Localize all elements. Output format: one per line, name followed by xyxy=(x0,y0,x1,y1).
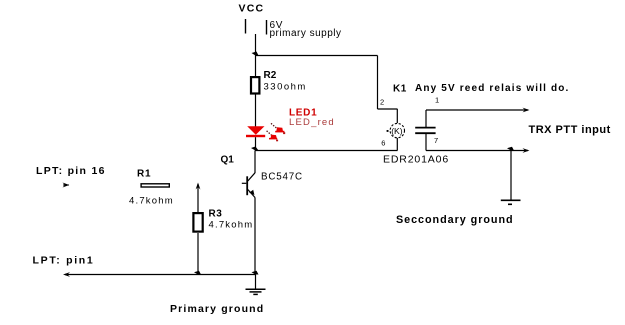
resistor R3 xyxy=(193,209,253,232)
wire LED to node xyxy=(255,137,257,150)
power VCC symbol xyxy=(239,3,265,34)
svg-text:R2: R2 xyxy=(264,70,277,81)
wire down to secondary ground xyxy=(510,151,512,201)
wire contact top stub xyxy=(425,110,427,127)
node junction VCC rail xyxy=(252,52,259,56)
svg-text:Any 5V reed relais will do.: Any 5V reed relais will do. xyxy=(415,83,569,94)
svg-text:Q1: Q1 xyxy=(221,155,235,166)
label K1 xyxy=(393,84,407,95)
LED LED1 xyxy=(246,108,335,142)
terminal arrow R3 top xyxy=(196,183,201,190)
svg-text:Primary ground: Primary ground xyxy=(170,303,264,315)
wire R3 bottom xyxy=(197,233,199,275)
svg-text:R3: R3 xyxy=(209,209,223,220)
svg-text:6: 6 xyxy=(381,139,385,148)
svg-text:2: 2 xyxy=(380,98,384,107)
wire node to collector xyxy=(254,151,256,174)
wire bottom rail xyxy=(65,274,256,276)
svg-text:4.7kohm: 4.7kohm xyxy=(129,195,174,206)
relay contact plates xyxy=(415,128,435,134)
resistor R2 xyxy=(251,70,307,94)
svg-text:LPT: pin1: LPT: pin1 xyxy=(33,254,95,266)
svg-text:R1: R1 xyxy=(137,169,151,180)
wire stub into relay coil xyxy=(396,109,398,123)
wire top rail to relay branch xyxy=(255,55,378,57)
svg-text:LED_red: LED_red xyxy=(289,117,335,128)
label LPT: pin1 xyxy=(33,254,95,266)
transistor Q1 xyxy=(221,155,303,198)
svg-text:TRX PTT input: TRX PTT input xyxy=(529,124,611,136)
svg-text:Seccondary ground: Seccondary ground xyxy=(396,214,514,226)
label TRX PTT input xyxy=(529,124,611,136)
svg-text:(K): (K) xyxy=(391,126,403,136)
wire contact bottom stub xyxy=(425,134,427,151)
wire coil return to LED node xyxy=(256,150,398,152)
label relay comment xyxy=(415,83,569,94)
wire R2 to LED xyxy=(255,95,257,127)
relay contact pin 7 label xyxy=(434,136,438,145)
terminal arrow TRX bottom xyxy=(523,148,530,153)
wire relay coil bottom xyxy=(396,138,398,151)
svg-text:BC547C: BC547C xyxy=(261,171,303,182)
node junction emitter/ground xyxy=(252,271,259,275)
pin 6 label xyxy=(381,139,385,148)
wire R3 top xyxy=(197,184,199,212)
svg-text:330ohm: 330ohm xyxy=(264,82,307,93)
label 6V primary supply (with leader bar) xyxy=(267,20,342,39)
svg-text:EDR201A06: EDR201A06 xyxy=(383,153,449,165)
svg-text:primary supply: primary supply xyxy=(270,28,342,39)
svg-text:1: 1 xyxy=(435,96,439,105)
pin 2 label xyxy=(380,98,384,107)
ground primary xyxy=(246,275,266,295)
label LPT: pin 16 xyxy=(36,165,106,177)
svg-text:K1: K1 xyxy=(393,84,407,95)
node junction LED/relay/collector xyxy=(251,147,259,151)
node junction R3 bottom xyxy=(194,271,201,275)
wire contact bottom to TRX xyxy=(426,150,528,152)
terminal arrow LPT pin1 xyxy=(63,272,70,277)
resistor R1 xyxy=(129,169,174,207)
ground secondary xyxy=(501,200,521,204)
label Primary ground xyxy=(170,303,264,315)
relay contact pin 1 label xyxy=(435,96,439,105)
node junction secondary ground xyxy=(507,147,514,151)
wire node to R2 xyxy=(255,56,257,77)
wire emitter down xyxy=(254,198,256,275)
svg-text:VCC: VCC xyxy=(239,3,265,15)
terminal arrow TRX top xyxy=(523,108,530,113)
wire VCC down to node xyxy=(255,34,257,56)
svg-text:4.7kohm: 4.7kohm xyxy=(209,219,254,230)
svg-text:LPT: pin 16: LPT: pin 16 xyxy=(36,165,106,177)
relay K1 coil xyxy=(387,123,405,137)
wire down right side xyxy=(377,56,379,110)
terminal arrow LPT pin 16 xyxy=(63,183,70,188)
label Seccondary ground xyxy=(396,214,514,226)
svg-text:7: 7 xyxy=(434,136,438,145)
label EDR201A06 xyxy=(383,153,449,165)
wire to relay pin 2 xyxy=(378,108,398,110)
wire contact top to TRX xyxy=(426,109,528,111)
